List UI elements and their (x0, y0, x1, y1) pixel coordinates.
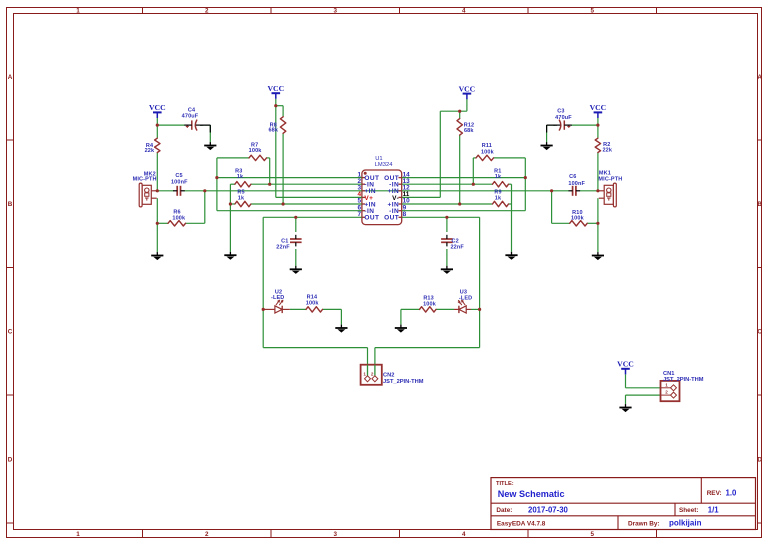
svg-text:D: D (8, 457, 13, 464)
svg-text:68k: 68k (464, 128, 474, 134)
svg-text:1k: 1k (495, 195, 502, 201)
svg-text:VCC: VCC (459, 84, 476, 93)
svg-text:EasyEDA V4.7.8: EasyEDA V4.7.8 (497, 521, 546, 528)
svg-text:100k: 100k (423, 301, 437, 307)
svg-text:5: 5 (590, 531, 594, 538)
svg-text:New Schematic: New Schematic (498, 489, 565, 499)
svg-text:C1: C1 (281, 238, 288, 244)
svg-text:polkijain: polkijain (669, 518, 702, 527)
svg-text:C: C (8, 328, 13, 335)
svg-text:U1: U1 (375, 156, 382, 162)
svg-text:C3: C3 (557, 108, 564, 114)
svg-text:3: 3 (333, 7, 337, 14)
svg-text:8: 8 (403, 211, 407, 218)
svg-text:2: 2 (371, 371, 374, 376)
svg-text:22k: 22k (602, 148, 612, 154)
svg-text:C5: C5 (175, 173, 182, 179)
svg-text:100nF: 100nF (568, 181, 585, 187)
svg-text:CN2: CN2 (383, 373, 394, 379)
svg-text:TITLE:: TITLE: (496, 481, 514, 487)
svg-text:2017-07-30: 2017-07-30 (528, 505, 569, 514)
svg-text:-LED: -LED (459, 296, 472, 302)
svg-text:1: 1 (76, 7, 80, 14)
svg-text:4: 4 (462, 531, 466, 538)
svg-text:-LED: -LED (271, 295, 284, 301)
svg-text:R9: R9 (494, 189, 501, 195)
svg-text:MIC-PTH: MIC-PTH (133, 177, 157, 183)
svg-text:100k: 100k (571, 216, 585, 222)
svg-text:4: 4 (462, 7, 466, 14)
svg-text:470uF: 470uF (182, 113, 199, 119)
svg-text:A: A (757, 74, 762, 81)
svg-text:1: 1 (665, 382, 668, 387)
svg-text:MIC-PTH: MIC-PTH (598, 177, 622, 183)
svg-text:OUT: OUT (364, 215, 379, 222)
svg-text:LM324: LM324 (375, 162, 394, 168)
svg-text:1k: 1k (237, 174, 244, 180)
svg-text:7: 7 (357, 211, 361, 218)
svg-text:470uF: 470uF (555, 115, 572, 121)
svg-text:2: 2 (665, 390, 668, 395)
svg-text:100k: 100k (306, 300, 320, 306)
svg-text:C: C (757, 328, 762, 335)
svg-text:JST_2PIN-THM: JST_2PIN-THM (383, 379, 424, 385)
svg-text:100k: 100k (249, 148, 263, 154)
svg-text:22nF: 22nF (450, 244, 464, 250)
svg-text:VCC: VCC (617, 360, 634, 369)
svg-text:A: A (8, 74, 13, 81)
svg-text:C2: C2 (452, 238, 459, 244)
svg-text:REV:: REV: (707, 490, 722, 497)
svg-text:5: 5 (590, 7, 594, 14)
svg-text:B: B (8, 201, 13, 208)
svg-text:1k: 1k (495, 174, 502, 180)
svg-text:Date:: Date: (496, 507, 512, 514)
svg-text:22k: 22k (145, 148, 155, 154)
svg-text:Sheet:: Sheet: (679, 507, 699, 514)
svg-text:CN1: CN1 (663, 371, 674, 377)
svg-text:VCC: VCC (590, 103, 607, 112)
svg-text:B: B (757, 201, 762, 208)
svg-text:1/1: 1/1 (708, 505, 720, 514)
svg-text:OUT: OUT (384, 215, 399, 222)
svg-text:VCC: VCC (149, 103, 166, 112)
svg-text:1: 1 (363, 371, 366, 376)
svg-text:1k: 1k (238, 195, 245, 201)
svg-text:C6: C6 (569, 174, 576, 180)
svg-text:R5: R5 (237, 189, 244, 195)
svg-text:3: 3 (333, 531, 337, 538)
svg-text:Drawn By:: Drawn By: (628, 521, 660, 528)
svg-text:VCC: VCC (267, 84, 284, 93)
svg-text:68k: 68k (268, 128, 278, 134)
svg-text:2: 2 (205, 7, 209, 14)
svg-text:100k: 100k (481, 149, 495, 155)
svg-text:1: 1 (76, 531, 80, 538)
svg-text:22nF: 22nF (276, 244, 290, 250)
svg-text:100nF: 100nF (171, 180, 188, 186)
svg-text:1.0: 1.0 (726, 488, 738, 497)
svg-text:JST_2PIN-THM: JST_2PIN-THM (663, 377, 704, 383)
svg-text:R11: R11 (482, 143, 492, 149)
svg-text:D: D (757, 457, 762, 464)
svg-text:U3: U3 (460, 289, 467, 295)
svg-text:100k: 100k (172, 215, 186, 221)
svg-text:2: 2 (205, 531, 209, 538)
